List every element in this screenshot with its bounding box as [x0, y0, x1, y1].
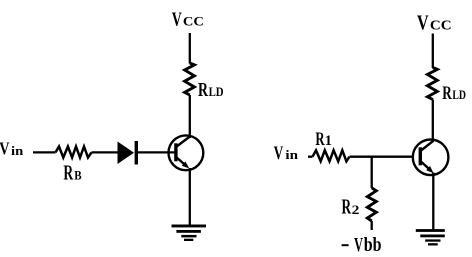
svg-text:R: R [63, 163, 73, 185]
svg-text:R: R [198, 79, 208, 101]
svg-text:V: V [417, 12, 429, 35]
svg-text:R: R [342, 195, 352, 219]
svg-text:in: in [285, 147, 298, 162]
svg-text:V: V [274, 143, 284, 164]
svg-text:V: V [354, 234, 363, 256]
svg-text:2: 2 [352, 203, 360, 217]
svg-text:CC: CC [430, 19, 452, 34]
svg-text:LD: LD [452, 88, 466, 102]
svg-text:V: V [172, 8, 182, 30]
svg-text:bb: bb [364, 235, 382, 256]
svg-text:in: in [11, 143, 24, 158]
svg-text:R: R [315, 129, 325, 150]
svg-text:LD: LD [209, 85, 224, 99]
svg-text:V: V [0, 139, 10, 159]
svg-text:B: B [74, 169, 81, 183]
svg-text:R: R [442, 83, 452, 104]
svg-text:1: 1 [325, 133, 332, 149]
svg-text:CC: CC [183, 14, 204, 28]
